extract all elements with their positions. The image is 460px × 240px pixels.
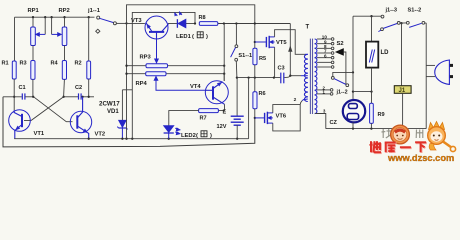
svg-text:12V: 12V	[217, 124, 227, 130]
svg-text:LD: LD	[381, 50, 390, 56]
transformer lower taps	[317, 89, 333, 96]
wire ground drop	[248, 78, 250, 139]
label T	[306, 25, 310, 31]
transformer secondary taps	[317, 38, 334, 69]
label RP2	[59, 8, 70, 14]
svg-text:R6: R6	[259, 91, 266, 97]
wire bottom right rail	[326, 128, 426, 130]
svg-text:R8: R8	[199, 15, 206, 21]
label R1	[2, 61, 9, 67]
label S1--1	[238, 53, 252, 59]
resistor R5	[253, 42, 257, 78]
label R5	[259, 56, 266, 62]
node dots ground rail	[88, 138, 239, 140]
resistor R4	[62, 61, 66, 80]
svg-text:): )	[206, 34, 208, 40]
battery E 12V	[231, 78, 244, 139]
transformer core	[310, 39, 312, 114]
label j1--3	[385, 7, 398, 13]
wire VT4 collector down	[218, 104, 224, 110]
wire switch mid	[400, 22, 406, 24]
led LED2	[164, 126, 180, 139]
resistor R6	[253, 78, 257, 118]
svg-text:j1--2: j1--2	[336, 90, 348, 96]
node dot VT6 gate tap	[254, 117, 256, 119]
wire VT6 drain	[273, 101, 302, 113]
node dot VT5 gate tap	[254, 41, 256, 43]
node dots on top rail	[32, 16, 90, 18]
svg-text:R9: R9	[378, 112, 385, 118]
label R4	[51, 61, 59, 67]
relay contact j1--2	[331, 77, 348, 87]
labels lower tap numbers	[323, 85, 326, 94]
transformer primary winding	[301, 54, 308, 101]
node dots mid bus	[247, 76, 275, 78]
label S1--2	[408, 7, 422, 13]
wire cross C2-to-VT1base	[24, 97, 64, 121]
wire VT5 drain	[275, 30, 305, 55]
svg-text:VD1: VD1	[107, 109, 119, 115]
wire top rail left section	[15, 17, 95, 61]
wire R4 bottom lead	[63, 79, 66, 96]
svg-text:RP2: RP2	[59, 8, 70, 14]
switch S1--1	[231, 24, 238, 78]
wire R1 bottom lead	[13, 79, 15, 110]
label R2	[75, 61, 82, 67]
capacitor C1	[22, 93, 25, 99]
socket CZ	[343, 100, 365, 129]
wiper RP1	[36, 17, 46, 36]
svg-text:LED2: LED2	[181, 133, 196, 139]
wire C1 right node	[25, 96, 34, 98]
wire mid bus	[237, 76, 290, 78]
label 12V	[217, 124, 227, 130]
label C2	[75, 85, 82, 91]
labels tap numbers	[322, 35, 328, 59]
label VT6	[276, 113, 287, 119]
label LD	[381, 50, 390, 56]
mosfet VT6	[255, 112, 273, 124]
wire VD1 top tie	[122, 90, 132, 121]
wire j1--1 to rail A	[116, 22, 127, 24]
label VT3	[131, 18, 142, 24]
svg-text:(: (	[196, 133, 198, 139]
svg-text:VT4: VT4	[190, 84, 201, 90]
svg-text:VT3: VT3	[131, 18, 142, 24]
svg-text:S1--2: S1--2	[408, 7, 422, 13]
mascot 2	[428, 122, 456, 152]
wire VT4 emitter up	[223, 74, 225, 81]
label E	[223, 109, 227, 115]
label RP3	[140, 54, 152, 60]
label VT2	[95, 132, 106, 138]
svg-text:R2: R2	[75, 61, 82, 67]
label j1--1	[87, 8, 101, 14]
mosfet VT5	[255, 36, 275, 48]
wire cross C1-to-VT2base	[34, 97, 73, 122]
svg-text:LED1: LED1	[176, 34, 192, 40]
transistor VT1	[9, 110, 31, 139]
svg-text:C1: C1	[19, 85, 26, 91]
label RP1	[28, 8, 40, 14]
svg-text:VT6: VT6	[276, 113, 287, 119]
wire row1	[127, 65, 225, 67]
svg-text:RP4: RP4	[136, 81, 148, 87]
label LED2	[181, 131, 212, 139]
watermark gray glyphs	[382, 129, 423, 138]
label C1	[19, 85, 26, 91]
transformer secondary winding	[315, 39, 317, 114]
zener diode VD1	[117, 120, 127, 138]
wire staple	[333, 71, 354, 76]
wire J1 bottom lead	[402, 93, 404, 128]
svg-text:2: 2	[294, 97, 297, 103]
node dot battery top	[236, 76, 238, 78]
potentiometer RP2	[62, 17, 67, 60]
node dots row2	[125, 73, 225, 75]
svg-text:S2: S2	[337, 41, 344, 47]
label VT1	[34, 131, 45, 137]
resistor R1	[12, 61, 16, 79]
potentiometer RP3	[146, 39, 168, 68]
wire R7 left to LED2	[169, 111, 199, 126]
svg-text:(: (	[192, 34, 194, 40]
svg-text:2CW17: 2CW17	[99, 101, 120, 108]
resistor R9	[370, 103, 374, 128]
capacitor C3	[281, 73, 284, 84]
wire rail 224	[223, 24, 225, 81]
label R7	[200, 116, 207, 122]
label LED1	[176, 32, 208, 40]
label CZ	[330, 120, 338, 126]
relay coil J1	[394, 86, 411, 95]
label C3	[278, 66, 285, 72]
wire row2	[127, 73, 225, 75]
svg-text:RP1: RP1	[28, 8, 40, 14]
node dot switch mid	[400, 22, 402, 24]
wire rail A	[127, 5, 255, 139]
wire C2 right node	[81, 96, 94, 98]
label R3	[20, 61, 27, 67]
symbol diamond marker	[96, 29, 100, 33]
svg-text:CZ: CZ	[330, 120, 338, 126]
node dot R1/C1	[13, 96, 15, 98]
wire C2 left	[62, 96, 78, 98]
wire secondary tap corner	[325, 128, 327, 130]
label R6	[259, 91, 266, 97]
svg-text:T: T	[306, 25, 310, 31]
svg-text:C3: C3	[278, 66, 285, 72]
resistor R2	[87, 17, 91, 97]
switch j1--1 blade	[100, 18, 114, 22]
node dot CZ tie	[352, 90, 354, 92]
label VT4	[190, 84, 201, 90]
label 2CW17	[99, 101, 120, 108]
switch S1--2	[406, 21, 424, 27]
switch j1--1 contact a	[97, 16, 100, 19]
svg-text:VT1: VT1	[34, 131, 45, 137]
label tap 3	[323, 109, 326, 114]
wiper RP2	[52, 17, 62, 36]
transistor VT3	[145, 16, 168, 39]
plug body arc	[435, 60, 450, 84]
wire CZ-R9 tie	[353, 90, 373, 92]
resistor R8	[199, 22, 218, 26]
potentiometer RP4	[146, 72, 166, 76]
svg-text:j1--3: j1--3	[385, 7, 398, 13]
label VT5	[276, 40, 287, 46]
svg-text:R7: R7	[200, 116, 207, 122]
switch j1--1 contact b	[113, 22, 116, 25]
switch S2 blade	[336, 49, 346, 84]
plug prongs	[426, 64, 453, 78]
svg-text:6: 6	[324, 53, 327, 58]
svg-text:VT5: VT5	[276, 40, 287, 46]
led LED1	[174, 12, 186, 28]
svg-text:R1: R1	[2, 61, 9, 67]
relay contact j1--3	[378, 15, 400, 31]
svg-text:): )	[210, 133, 212, 139]
wire J1 top lead	[401, 23, 403, 85]
resistor R7	[199, 109, 219, 113]
label VD1	[107, 109, 119, 115]
lamp LD	[366, 16, 378, 103]
svg-text:www.dzsc.com: www.dzsc.com	[387, 153, 454, 162]
label RP4	[136, 81, 148, 87]
svg-text:VT2: VT2	[95, 132, 106, 138]
wire C1 left	[3, 96, 22, 98]
potentiometer RP1	[31, 17, 36, 60]
logo weiku text	[370, 141, 427, 153]
label R8	[199, 15, 206, 21]
svg-text:R5: R5	[259, 56, 266, 62]
label S2	[337, 41, 344, 47]
wire VT6 source loop	[273, 105, 300, 131]
wire ground rail	[14, 138, 248, 140]
capacitor C2	[79, 93, 82, 99]
transistor VT2	[70, 97, 91, 139]
node dots main bus	[194, 22, 256, 24]
label primary tap 2	[294, 97, 297, 103]
wire R3 bottom lead	[32, 79, 34, 96]
wire bus drop to primary tap	[289, 24, 301, 77]
transistor VT4	[205, 81, 228, 105]
wire S1--2 to plug	[425, 23, 426, 129]
svg-text:E: E	[223, 109, 227, 115]
svg-text:J1: J1	[399, 88, 406, 94]
resistor R3	[31, 61, 35, 80]
wire outer loop left	[3, 97, 255, 147]
svg-text:R4: R4	[51, 61, 59, 67]
node dots bottom right rail	[352, 127, 404, 129]
svg-text:j1--1: j1--1	[87, 8, 101, 14]
svg-text:S1--1: S1--1	[238, 53, 252, 59]
svg-text:R3: R3	[20, 61, 27, 67]
wiper RP4	[154, 76, 205, 90]
svg-text:C2: C2	[75, 85, 82, 91]
wire secondary bottom tap	[315, 114, 326, 129]
wire top right feed	[353, 15, 381, 17]
label j1--2	[336, 90, 348, 96]
wire VT5 source	[274, 47, 276, 77]
mascot 1	[391, 125, 410, 144]
svg-text:RP3: RP3	[140, 54, 152, 60]
logo url	[387, 153, 454, 163]
wire main bus	[127, 22, 291, 24]
wire right rail 353	[352, 16, 354, 100]
label R9	[378, 112, 385, 118]
node dots row1	[125, 65, 225, 67]
wire rail B	[132, 12, 195, 138]
